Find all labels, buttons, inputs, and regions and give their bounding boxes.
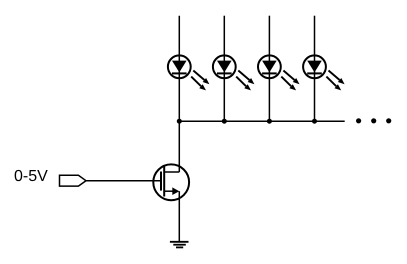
junction node 4 — [312, 119, 317, 124]
wire: horizontal bus — [179, 120, 344, 122]
LED D1 — [168, 55, 210, 90]
transistor Q1 (N-MOSFET) — [153, 164, 189, 200]
label: 0-5V — [14, 168, 48, 185]
wire: LED column 1 / drain vertical — [178, 16, 180, 172]
ground — [170, 242, 189, 248]
LED D3 — [258, 55, 300, 90]
input tag (0-5V signal flag) — [60, 175, 87, 186]
wire: LED column 4 — [314, 16, 316, 122]
wire: source to ground — [178, 191, 180, 242]
wire: LED column 3 — [268, 16, 270, 122]
svg-text:0-5V: 0-5V — [14, 168, 48, 185]
wire: LED column 2 — [223, 16, 225, 122]
wire: gate wire — [86, 180, 161, 182]
junction node 1 — [177, 119, 182, 124]
ellipsis: more LED branches — [356, 118, 391, 123]
junction node 3 — [267, 119, 272, 124]
junction node 2 — [222, 119, 227, 124]
LED D2 — [213, 55, 255, 90]
LED D4 — [303, 55, 345, 90]
